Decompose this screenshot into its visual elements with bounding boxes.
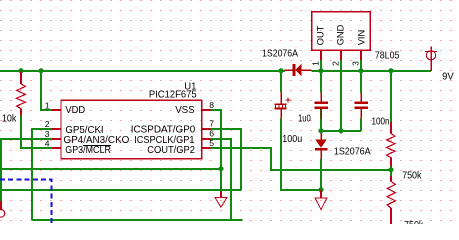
svg-text:750k: 750k bbox=[404, 220, 424, 224]
node VSS/line A bbox=[218, 166, 223, 171]
IC pin stubs left bbox=[52, 110, 211, 148]
wire rail right of D1 bbox=[311, 70, 431, 72]
svg-text:750k: 750k bbox=[402, 171, 422, 182]
capacitor C3 100n bbox=[355, 102, 368, 109]
svg-text:2: 2 bbox=[45, 119, 50, 129]
wire 10k bottom to GP3/MCLR bbox=[21, 115, 53, 148]
svg-text:100n: 100n bbox=[372, 117, 390, 128]
wire 100u top bbox=[280, 71, 282, 92]
wire ICSPDAT/GP0 column bbox=[211, 129, 241, 190]
ground GND1 (VSS) bbox=[215, 192, 227, 208]
svg-text:1: 1 bbox=[310, 61, 320, 66]
node rail/VIN/100n bbox=[358, 68, 363, 73]
capacitor C2 1u0 bbox=[315, 102, 328, 109]
svg-text:1u0: 1u0 bbox=[298, 114, 311, 125]
IC U1 PIC12F675 box bbox=[61, 100, 202, 158]
wire regulator GND pin drop bbox=[340, 60, 342, 131]
wire 10k top lead drop bbox=[20, 71, 22, 79]
wire 100n bottom riser bbox=[360, 119, 362, 132]
svg-text:OUT: OUT bbox=[315, 25, 325, 45]
ground GND2 (caps) bbox=[315, 190, 327, 209]
svg-text:VIN: VIN bbox=[356, 30, 366, 46]
svg-text:1S2076A: 1S2076A bbox=[334, 147, 371, 158]
svg-text:GP3/MCLR: GP3/MCLR bbox=[65, 145, 111, 156]
wire GND row caps bbox=[321, 130, 361, 132]
MCLR overbar bbox=[83, 145, 111, 147]
svg-text:6: 6 bbox=[209, 128, 214, 138]
svg-text:1S2076A: 1S2076A bbox=[262, 49, 298, 60]
wire COUT/GP2 to divider bbox=[211, 148, 391, 170]
wire GP4/AN3 column bbox=[1, 139, 53, 201]
wire 750k junction bbox=[390, 167, 392, 177]
node GND row/reg GND bbox=[338, 128, 343, 133]
svg-text:10k: 10k bbox=[2, 114, 17, 125]
svg-text:2: 2 bbox=[330, 61, 340, 66]
wire 750k top bbox=[390, 71, 392, 122]
svg-text:1: 1 bbox=[45, 100, 50, 110]
diode D1 1S2076A bbox=[292, 64, 301, 76]
node GND row/1u0 bbox=[318, 128, 323, 133]
svg-text:7: 7 bbox=[209, 118, 214, 128]
resistor R1 10k bbox=[20, 72, 22, 116]
svg-text:3: 3 bbox=[350, 61, 360, 66]
svg-text:4: 4 bbox=[45, 139, 50, 149]
svg-text:VSS: VSS bbox=[175, 105, 195, 116]
wire 1u0 bottom / D2 top bbox=[320, 109, 322, 134]
resistor R3 750k bbox=[390, 176, 392, 224]
wire VSS column bbox=[211, 110, 221, 192]
wire D2 bottom to ground bbox=[320, 159, 322, 190]
wire GP5/CKI column bbox=[32, 129, 53, 220]
reg pin stubs bbox=[321, 50, 361, 59]
wire regulator VIN pin bbox=[360, 60, 362, 71]
svg-text:PIC12F675: PIC12F675 bbox=[149, 90, 197, 101]
bus dashed blue line bbox=[0, 180, 52, 225]
wire 100n top to VIN junction bbox=[360, 71, 362, 93]
svg-text:GND: GND bbox=[335, 24, 345, 45]
supply 9V symbol bbox=[425, 47, 437, 71]
diode D2 1S2076A vertical bbox=[315, 140, 327, 151]
wire bottom line GP5-GP1 bbox=[32, 219, 242, 221]
svg-text:78L05: 78L05 bbox=[375, 51, 400, 62]
node rail/100u bbox=[278, 68, 283, 73]
svg-text:5: 5 bbox=[209, 138, 214, 148]
svg-text:9V: 9V bbox=[442, 71, 454, 82]
svg-text:100u: 100u bbox=[282, 134, 302, 145]
wire VDD branch bbox=[41, 70, 53, 110]
wire antenna line bbox=[1, 189, 241, 191]
node rail/750k bbox=[388, 68, 393, 73]
node D2/100u/gnd bbox=[318, 187, 323, 192]
regulator IC box 78L05 bbox=[312, 12, 371, 51]
wire VCC rail bbox=[0, 70, 285, 72]
node rail/OUT/1u0 bbox=[318, 68, 323, 73]
resistor R2 750k bbox=[390, 122, 392, 167]
plus sign C1 bbox=[286, 98, 291, 103]
capacitor C1 100u polarized bbox=[280, 92, 282, 119]
svg-text:3: 3 bbox=[45, 129, 50, 139]
wire 100u bottom to gnd junction bbox=[281, 119, 321, 191]
svg-text:COUT/GP2: COUT/GP2 bbox=[147, 145, 195, 156]
svg-text:8: 8 bbox=[209, 100, 214, 110]
wire GND rail line A bbox=[0, 168, 221, 170]
svg-text:VDD: VDD bbox=[65, 105, 85, 116]
wire regulator OUT pin bbox=[320, 60, 322, 71]
node divider mid bbox=[388, 167, 393, 172]
wire ICSPCLK/GP1 column bbox=[211, 139, 231, 220]
node rail/VDD bbox=[38, 68, 43, 73]
node rail/10k bbox=[18, 68, 23, 73]
antenna connector (clipped) bbox=[0, 201, 5, 217]
wire 1u0 top bbox=[320, 71, 322, 93]
